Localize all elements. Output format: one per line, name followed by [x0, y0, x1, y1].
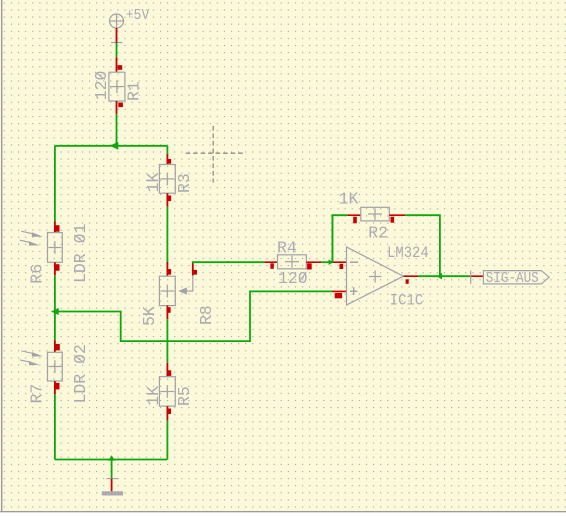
- net flag pin tick: [470, 271, 472, 284]
- svg-text:5K: 5K: [140, 306, 159, 326]
- wire R1 bottom pin red: [116, 101, 118, 114]
- wire R6 top pin red: [54, 222, 56, 233]
- frame left edge: [1, 0, 2, 512]
- pin pad R3 bottom: [167, 196, 171, 202]
- wire +5V pin red upper: [116, 28, 118, 43]
- wire R6 bottom pin red: [54, 262, 56, 275]
- pin pad R2 left: [353, 217, 357, 224]
- pin pad R8 wiper: [194, 270, 197, 275]
- wire feedback vertical: [331, 215, 333, 262]
- wire R7 bottom pin red: [54, 381, 56, 394]
- svg-text:1K: 1K: [144, 172, 163, 192]
- pin pad R8 top: [167, 269, 171, 275]
- resistor R4 body: [278, 255, 307, 269]
- wire R5 top pin red: [166, 363, 168, 377]
- wire R1 to rail: [116, 114, 118, 146]
- svg-text:1K: 1K: [144, 386, 163, 406]
- pin pad R3 top: [167, 159, 171, 164]
- wire R5 to bottom rail: [166, 420, 168, 459]
- wire R4 to minus junction: [321, 261, 333, 263]
- frame bottom edge: [0, 511, 566, 512]
- node junction top rail: [110, 142, 119, 150]
- wire R7 top pin red: [54, 340, 56, 352]
- svg-text:R3: R3: [175, 173, 194, 193]
- resistor R4 right pin red: [306, 261, 321, 263]
- pin pad R5 top: [167, 370, 171, 376]
- resistor R5 body: [159, 377, 175, 406]
- wire rail to R3 green: [166, 146, 168, 154]
- wire tap to opamp plus input: [55, 291, 332, 341]
- wire R1 top pin red: [116, 57, 118, 72]
- pin pad R1 top: [118, 65, 123, 70]
- resistor R4 value 120: [278, 269, 308, 288]
- pin pad R7 bottom: [55, 383, 60, 390]
- node junction output: [437, 273, 442, 280]
- pin pad R6 bottom: [55, 264, 60, 271]
- resistor R1 body: [109, 72, 125, 101]
- net flag SIG-AUS pin red: [470, 275, 484, 277]
- svg-text:R5: R5: [175, 386, 194, 406]
- resistor R3 body: [159, 165, 175, 194]
- LDR R7 value label: [71, 344, 90, 403]
- svg-text:LDR 01: LDR 01: [71, 223, 90, 283]
- wire R8 wiper pin red: [192, 264, 194, 276]
- wire top rail horizontal: [55, 145, 167, 147]
- wire R8 to R5: [166, 319, 168, 363]
- svg-text:1K: 1K: [339, 190, 359, 209]
- LDR R6 light arrows: [20, 231, 43, 245]
- resistor R1 value 120: [92, 71, 111, 101]
- wire R2 right corner to output: [405, 215, 440, 276]
- svg-text:R2: R2: [368, 224, 388, 243]
- svg-text:R1: R1: [125, 81, 144, 101]
- wire R8 bottom pin red: [166, 306, 168, 320]
- wire +5V to R1 green: [116, 43, 118, 58]
- pin pad R4 right: [307, 263, 312, 269]
- op-amp IC1C minus pin red: [333, 261, 347, 263]
- potentiometer R8 wiper arrow: [178, 275, 193, 294]
- pin pad opamp output: [406, 279, 409, 284]
- wire bottom rail: [55, 459, 167, 461]
- op-amp output pin red: [404, 275, 419, 277]
- svg-text:120: 120: [92, 71, 111, 101]
- svg-text:120: 120: [278, 269, 308, 288]
- pin pad opamp minus: [340, 264, 344, 269]
- net flag SIG-AUS outline: [483, 271, 549, 284]
- supply +5V symbol P1: [110, 14, 124, 43]
- wire wiper to R4: [193, 262, 264, 263]
- resistor R4 left pin red: [264, 261, 277, 263]
- wire output junction to flag: [440, 275, 470, 277]
- wire output to junction: [418, 275, 440, 277]
- node junction left tap: [51, 308, 59, 315]
- svg-text:LDR 02: LDR 02: [71, 344, 90, 403]
- pin pad R8 bottom: [167, 307, 171, 313]
- LDR R6 body: [48, 233, 63, 263]
- wire R5 bottom pin red: [166, 406, 168, 420]
- resistor R2 right pin red: [389, 214, 405, 216]
- LDR R7 body: [48, 352, 63, 381]
- dashed crosshair marker: [186, 126, 244, 183]
- wire left rail bottom: [54, 394, 56, 460]
- LDR R6 value label: [71, 223, 90, 283]
- svg-text:R4: R4: [277, 239, 297, 258]
- wire left rail mid: [54, 275, 56, 340]
- pin pad R2 right: [391, 217, 395, 223]
- svg-text:R7: R7: [28, 384, 47, 404]
- svg-text:LM324: LM324: [387, 244, 429, 262]
- resistor R2 body: [361, 207, 390, 221]
- svg-text:R6: R6: [28, 264, 47, 284]
- LDR R7 light arrows: [20, 351, 43, 365]
- wire R3 top pin red: [166, 154, 168, 165]
- node junction ground tap: [108, 455, 115, 460]
- pin pad R1 bottom: [118, 103, 123, 108]
- resistor R2 left pin red: [347, 214, 361, 216]
- pin pad R7 top: [55, 344, 60, 351]
- svg-text:SIG-AUS: SIG-AUS: [486, 270, 539, 287]
- svg-text:IC1C: IC1C: [390, 292, 423, 310]
- ground symbol GND: [102, 479, 123, 496]
- node junction minus input: [329, 259, 334, 265]
- op-amp IC1C body: [347, 247, 404, 305]
- wire left rail top: [54, 146, 56, 222]
- op-amp IC1C plus pin red: [332, 290, 347, 292]
- wire R2 left corner: [332, 215, 347, 262]
- potentiometer R8 body: [159, 276, 175, 305]
- wire ground stem green: [111, 460, 113, 479]
- wire R8 top pin red: [166, 262, 168, 276]
- pin pad R5 bottom: [167, 409, 171, 415]
- svg-text:+5V: +5V: [126, 7, 150, 24]
- pin pad R4 left: [270, 263, 273, 269]
- wire R3 to R8: [166, 207, 168, 262]
- pin pad opamp plus: [335, 293, 342, 298]
- wire R3 bottom pin red: [166, 193, 168, 207]
- pin pad R6 top: [55, 225, 60, 232]
- svg-text:R8: R8: [197, 305, 216, 325]
